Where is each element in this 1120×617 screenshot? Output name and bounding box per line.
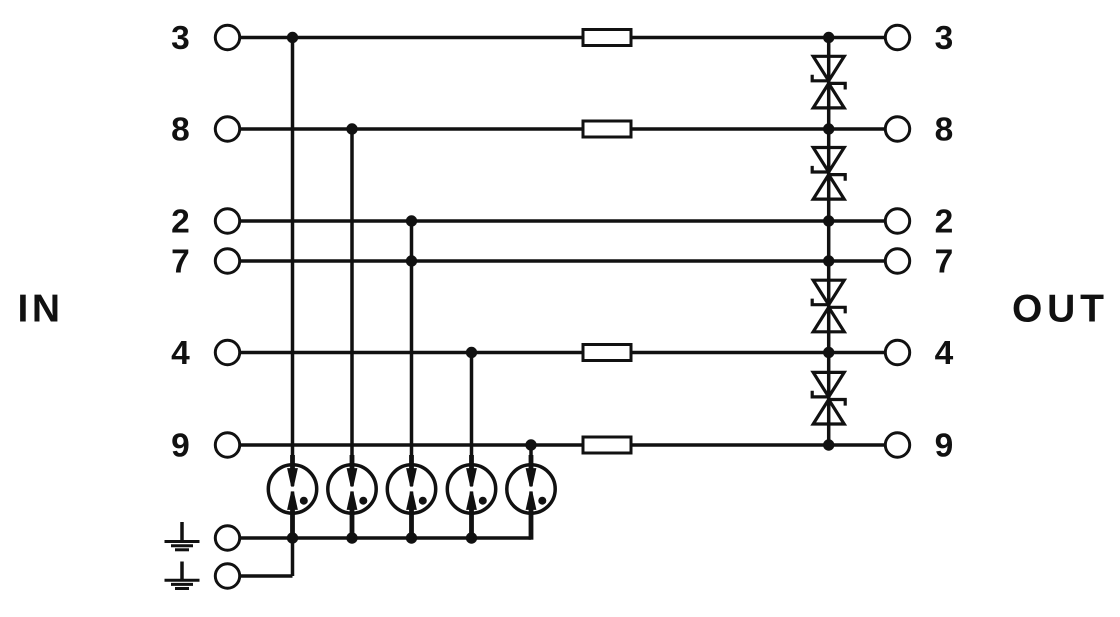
svg-text:4: 4 bbox=[935, 335, 954, 372]
svg-text:2: 2 bbox=[171, 204, 190, 241]
svg-text:8: 8 bbox=[935, 112, 954, 149]
svg-text:9: 9 bbox=[171, 428, 190, 465]
svg-text:OUT: OUT bbox=[1012, 288, 1109, 331]
svg-text:2: 2 bbox=[935, 204, 954, 241]
svg-text:3: 3 bbox=[171, 20, 190, 57]
svg-text:9: 9 bbox=[935, 428, 954, 465]
svg-text:8: 8 bbox=[171, 112, 190, 149]
svg-text:3: 3 bbox=[935, 20, 954, 57]
svg-text:IN: IN bbox=[18, 288, 64, 331]
svg-text:7: 7 bbox=[171, 244, 190, 281]
svg-text:7: 7 bbox=[935, 244, 954, 281]
svg-text:4: 4 bbox=[171, 335, 190, 372]
